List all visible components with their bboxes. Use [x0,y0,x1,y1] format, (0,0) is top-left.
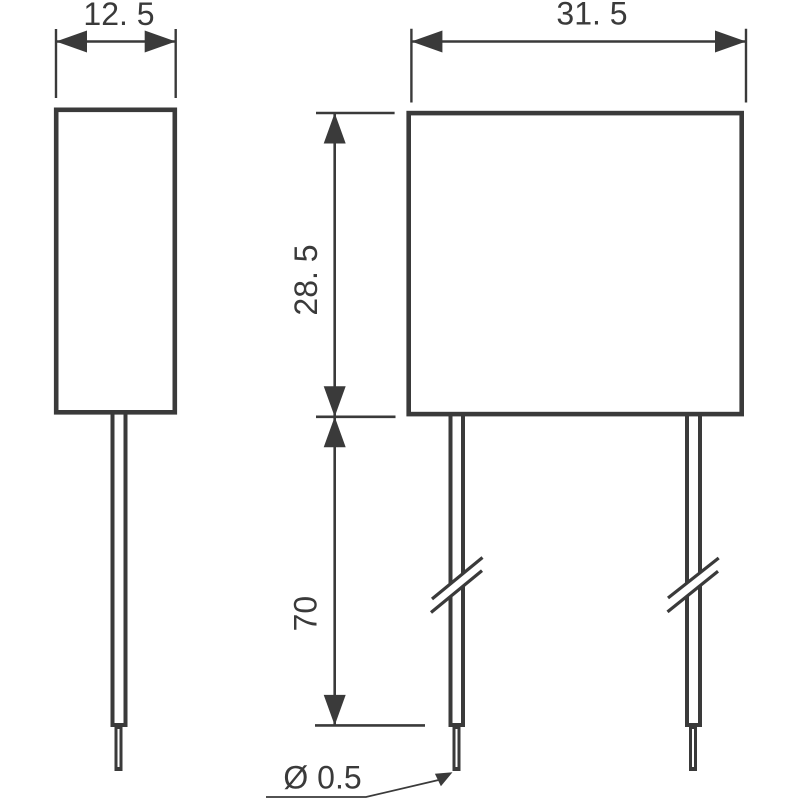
leader line [266,780,439,797]
extension line lead end [315,724,425,727]
right view right lead break mark [668,558,719,612]
dimension 12.5 extension lines [56,29,176,98]
dimension 70 arrows [324,417,346,726]
right view right lead tip [689,725,697,771]
dimension 12.5 arrows [56,31,176,53]
dimension 12.5 line [56,40,176,43]
dimension 70 line [333,417,336,726]
svg-text:31. 5: 31. 5 [556,0,627,32]
left view lead tip [115,725,123,771]
svg-text:Ø 0.5: Ø 0.5 [283,760,361,796]
right view left lead [451,416,464,725]
extension line body bottom [316,415,396,418]
dimension 31.5 arrows [411,31,746,53]
extension line body top [316,112,395,115]
left view body [56,110,175,413]
svg-text:28. 5: 28. 5 [288,244,324,315]
dimension 31.5 line [411,40,746,43]
dimension 28.5 arrows [324,113,346,417]
left view lead [113,414,126,725]
right view left lead tip [453,725,461,771]
dimension 31.5 extension lines [411,29,746,103]
right view left lead break mark [431,558,483,613]
svg-text:12. 5: 12. 5 [83,0,154,32]
leader arrow [435,772,453,786]
right view right lead [687,416,700,725]
right view body [409,113,742,414]
dimension 28.5 line [333,113,336,417]
svg-text:70: 70 [288,596,324,632]
